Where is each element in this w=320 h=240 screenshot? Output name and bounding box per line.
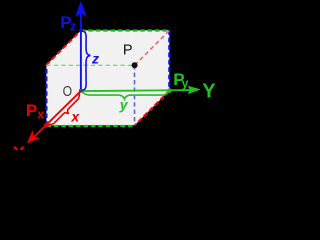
z brace (blue) [81, 31, 90, 91]
Y axis arrowhead [188, 86, 201, 95]
edge D-E (bottom front, parallel Y) [46, 125, 134, 127]
hidden edge F-G (interior, parallel Y, pale green) [46, 64, 134, 66]
edge D-F (left front, parallel Z) [45, 65, 47, 125]
svg-text:Y: Y [202, 81, 216, 103]
dot P_z [79, 28, 83, 32]
svg-text:z: z [91, 50, 99, 66]
edge B-C (top back, parallel Y) [81, 29, 169, 31]
x brace (red) [48, 94, 80, 125]
edge C-A (right back, parallel Z) [168, 30, 170, 90]
svg-text:P: P [26, 101, 37, 120]
edge A-E (bottom right diagonal, parallel X) [135, 91, 170, 126]
Z axis (blue) [80, 13, 82, 91]
svg-text:P: P [123, 43, 133, 59]
Y axis (green) [81, 90, 193, 91]
svg-text:X: X [13, 144, 26, 150]
svg-text:y: y [182, 76, 189, 90]
dot P_y [167, 88, 172, 93]
svg-text:y: y [119, 97, 129, 113]
X axis (red) [33, 91, 81, 138]
svg-text:x: x [37, 108, 44, 122]
svg-text:O: O [63, 83, 72, 99]
X axis arrowhead [27, 130, 40, 143]
dot P [132, 62, 138, 68]
y brace (green) [82, 91, 169, 99]
cuboid silhouette face fill [46, 30, 169, 125]
svg-text:x: x [70, 109, 80, 125]
Z axis arrowhead [75, 1, 87, 17]
dot O (origin) [79, 89, 83, 93]
hidden edge G-E (interior, parallel Z, pale blue) [134, 65, 136, 125]
svg-text:z: z [70, 19, 76, 33]
edge F-B (top left diagonal, parallel X) [46, 30, 81, 65]
hidden edge G-C (interior, parallel X, pale red) [135, 31, 170, 66]
dot P_x [44, 123, 49, 128]
